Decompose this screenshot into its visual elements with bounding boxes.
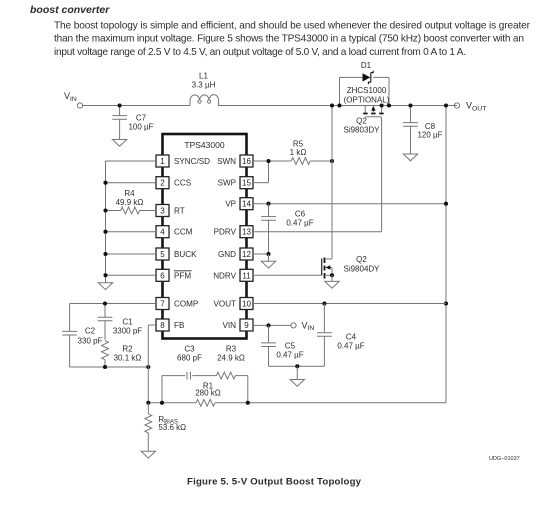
node: VOUT vertical on rail xyxy=(444,103,448,107)
wire: bottom feedback rail left xyxy=(148,402,196,404)
svg-text:COMP: COMP xyxy=(174,300,198,309)
node: ground stem xyxy=(295,364,299,368)
wire: SWN pin16 to R5 xyxy=(253,160,291,162)
node: C4 tap xyxy=(322,301,326,305)
svg-text:120 µF: 120 µF xyxy=(417,131,442,140)
svg-text:C1: C1 xyxy=(122,318,133,327)
wire: pin5 to bus xyxy=(106,253,157,255)
wire: C3R3 branch right side xyxy=(247,376,249,403)
svg-text:C4: C4 xyxy=(346,333,357,342)
svg-text:3.3 µH: 3.3 µH xyxy=(192,80,216,89)
pin 15 SWP xyxy=(218,177,253,189)
svg-text:SYNC/SD: SYNC/SD xyxy=(174,157,210,166)
svg-text:C3: C3 xyxy=(184,345,195,354)
ground (NMOS source) xyxy=(325,281,339,288)
wire: R4 to pin3 xyxy=(140,210,156,212)
svg-text:ZHCS1000: ZHCS1000 xyxy=(347,86,387,95)
svg-text:49.9 kΩ: 49.9 kΩ xyxy=(116,198,144,207)
node: C7 junction on rail xyxy=(118,103,122,107)
node: FB vertical junction xyxy=(146,365,150,369)
svg-text:GND: GND xyxy=(218,250,236,259)
pin 6 PFM (overline) xyxy=(156,269,192,281)
svg-text:Figure 5. 5-V Output Boost Top: Figure 5. 5-V Output Boost Topology xyxy=(187,477,362,488)
svg-text:NDRV: NDRV xyxy=(213,271,236,280)
wire: SWP pin15 right xyxy=(253,182,269,184)
pin 7 COMP xyxy=(156,298,198,310)
svg-text:C7: C7 xyxy=(136,113,147,122)
inductor L1 xyxy=(190,71,219,105)
pin 11 NDRV xyxy=(213,269,253,281)
ground (left bus) xyxy=(98,283,112,290)
node: SWP/SWN join xyxy=(266,159,270,163)
pin 13 PDRV xyxy=(214,226,253,238)
node VOUT terminal xyxy=(454,101,486,113)
wire: GND pin12 to C6 bottom xyxy=(253,253,269,255)
svg-text:VOUT: VOUT xyxy=(214,300,237,309)
node: C5 tap xyxy=(266,323,270,327)
wire: L1 to SWN node and D1 box xyxy=(218,105,457,107)
node: bus pin5 xyxy=(103,252,107,256)
node: bus pin2 xyxy=(103,181,107,185)
wire: D1 anode xyxy=(340,76,363,78)
wire: C3 to R3 xyxy=(192,375,216,377)
pin 4 CCM xyxy=(156,226,193,238)
wire: C5/C4 ground rail xyxy=(269,365,325,367)
node: COMP junction C1 xyxy=(103,301,107,305)
wire: VP pin14 to VOUT vertical xyxy=(253,203,446,205)
node: R5 right on SW vertical xyxy=(330,159,334,163)
wire: pin2 to bus xyxy=(106,182,157,184)
wire: R5 to SW node xyxy=(310,160,332,162)
wire: SWP up to SWN xyxy=(268,161,270,183)
wire: left ground bus xyxy=(105,161,107,283)
svg-text:6: 6 xyxy=(160,271,165,280)
node: bus pin4 xyxy=(103,230,107,234)
resistor R4 xyxy=(116,189,144,214)
wire: C3R3 top left xyxy=(162,375,185,377)
svg-text:SWN: SWN xyxy=(217,157,236,166)
pin 9 VIN xyxy=(223,319,254,331)
svg-text:VOUT: VOUT xyxy=(466,101,486,113)
wire: PMOS gate vertical xyxy=(381,117,383,232)
svg-text:Si9804DY: Si9804DY xyxy=(343,265,380,274)
svg-text:input voltage range of 2.5 V t: input voltage range of 2.5 V to 4.5 V, a… xyxy=(54,47,466,58)
node VIN terminal (right) xyxy=(291,320,315,332)
wire: compensation bottom rail xyxy=(70,366,149,368)
svg-text:C2: C2 xyxy=(85,327,96,336)
svg-text:12: 12 xyxy=(242,250,251,259)
node: rail branch left xyxy=(160,401,164,405)
svg-text:VP: VP xyxy=(225,200,236,209)
svg-text:C6: C6 xyxy=(295,210,306,219)
svg-text:9: 9 xyxy=(244,321,249,330)
resistor R5 xyxy=(290,140,311,165)
svg-text:CCM: CCM xyxy=(174,228,193,237)
pin 8 FB xyxy=(156,319,184,331)
svg-text:D1: D1 xyxy=(361,61,372,70)
node: C8 on rail xyxy=(408,103,412,107)
wire: COMP pin7 to compensation network xyxy=(70,303,156,305)
node: C6 tap on VP wire xyxy=(266,202,270,206)
svg-text:SWP: SWP xyxy=(218,179,236,188)
transistor Q2 Si9803DY (PMOS) xyxy=(343,103,383,134)
svg-text:24.9 kΩ: 24.9 kΩ xyxy=(217,354,245,363)
svg-text:30.1 kΩ: 30.1 kΩ xyxy=(114,354,142,363)
resistor RBIAS xyxy=(145,403,186,452)
wire: pin6 to bus xyxy=(106,274,157,276)
ground (C8) xyxy=(403,154,417,161)
svg-text:than the maximum input voltage: than the maximum input voltage. Figure 5… xyxy=(54,34,524,45)
svg-text:53.6 kΩ: 53.6 kΩ xyxy=(158,423,186,432)
capacitor C6 xyxy=(261,204,314,254)
IC U1 TPS43000 body xyxy=(163,134,247,339)
svg-text:FB: FB xyxy=(174,321,184,330)
wire: VOUT feedback vertical xyxy=(445,106,447,403)
svg-text:PDRV: PDRV xyxy=(214,228,237,237)
node: C1R2 bottom xyxy=(103,365,107,369)
capacitor C3 xyxy=(177,345,202,380)
node: VP tap xyxy=(444,202,448,206)
pin 3 RT xyxy=(156,205,185,217)
node: VOUT pin tap xyxy=(444,301,448,305)
svg-text:UDG−01037: UDG−01037 xyxy=(489,456,520,462)
node: bus pin6 xyxy=(103,273,107,277)
svg-text:2: 2 xyxy=(160,179,165,188)
svg-text:16: 16 xyxy=(242,157,251,166)
svg-text:5: 5 xyxy=(160,250,165,259)
pin 12 GND xyxy=(218,248,253,260)
svg-text:PFM: PFM xyxy=(174,271,191,280)
wire: SW node vertical (rail to NMOS drain) xyxy=(331,106,333,260)
ground (C7) xyxy=(112,140,126,147)
svg-text:15: 15 xyxy=(242,179,251,188)
node: D1 right on rail xyxy=(387,103,391,107)
svg-text:R3: R3 xyxy=(226,345,237,354)
pin 10 VOUT xyxy=(214,298,253,310)
node: C6 bottom / gnd xyxy=(266,252,270,256)
svg-text:10: 10 xyxy=(242,300,251,309)
svg-text:7: 7 xyxy=(160,300,165,309)
svg-text:C5: C5 xyxy=(285,342,296,351)
svg-text:Q2: Q2 xyxy=(356,255,367,264)
svg-text:4: 4 xyxy=(160,228,165,237)
svg-text:3300 pF: 3300 pF xyxy=(113,327,142,336)
capacitor C8 xyxy=(403,106,443,155)
capacitor C5 xyxy=(261,325,304,366)
diode D1 box right side xyxy=(388,77,390,105)
svg-text:VIN: VIN xyxy=(64,91,77,103)
resistor R2 xyxy=(102,341,142,367)
svg-text:(OPTIONAL): (OPTIONAL) xyxy=(344,95,390,104)
svg-text:TPS43000: TPS43000 xyxy=(184,140,224,150)
svg-text:0.47 µF: 0.47 µF xyxy=(286,219,313,228)
wire: pin4 to bus xyxy=(106,231,157,233)
resistor R3 xyxy=(216,345,245,380)
svg-text:RT: RT xyxy=(174,207,185,216)
pin 1 SYNC/SD xyxy=(156,155,210,167)
wire: C3R3 branch left side xyxy=(161,376,163,403)
capacitor C1 xyxy=(98,304,143,341)
wire: bottom feedback rail right xyxy=(215,402,446,404)
pin 2 CCS xyxy=(156,177,192,189)
svg-text:The boost topology is simple a: The boost topology is simple and efficie… xyxy=(54,21,531,32)
wire: D1 cathode xyxy=(373,76,389,78)
wire: VOUT pin10 right xyxy=(253,303,446,305)
svg-text:100 µF: 100 µF xyxy=(128,122,153,131)
node: rail branch right xyxy=(246,401,250,405)
svg-text:1: 1 xyxy=(160,157,165,166)
svg-text:3: 3 xyxy=(160,207,165,216)
svg-text:11: 11 xyxy=(242,271,251,280)
wire: NDRV pin11 to NMOS gate xyxy=(253,274,322,276)
diode D1 (Schottky) xyxy=(344,61,390,105)
ground (RBIAS) xyxy=(141,451,155,458)
ground (C4/C5) xyxy=(290,366,304,386)
transistor Q2 Si9804DY (NMOS) xyxy=(322,255,380,281)
wire: pin1 to bus xyxy=(106,160,157,162)
capacitor C2 branch xyxy=(62,304,102,368)
wire: VIN rail to L1 xyxy=(83,105,191,107)
node: D1 left on rail xyxy=(337,103,341,107)
svg-text:680 pF: 680 pF xyxy=(177,354,202,363)
pin 14 VP xyxy=(225,198,253,210)
svg-text:8: 8 xyxy=(160,321,165,330)
svg-text:VIN: VIN xyxy=(223,321,237,330)
pin 5 BUCK xyxy=(156,248,197,260)
svg-text:Q2: Q2 xyxy=(356,117,367,126)
svg-text:L1: L1 xyxy=(199,71,208,80)
pin 16 SWN xyxy=(217,155,253,167)
capacitor C4 xyxy=(317,304,365,367)
svg-text:CCS: CCS xyxy=(174,179,192,188)
wire: FB pin8 left xyxy=(148,324,156,326)
wire: PDRV pin13 right xyxy=(253,231,382,233)
svg-text:330 pF: 330 pF xyxy=(78,336,103,345)
svg-text:C8: C8 xyxy=(425,122,436,131)
diode D1 box left side xyxy=(339,77,341,105)
svg-text:280 kΩ: 280 kΩ xyxy=(195,389,221,398)
svg-text:14: 14 xyxy=(242,200,251,209)
svg-text:1 kΩ: 1 kΩ xyxy=(290,148,307,157)
svg-text:BUCK: BUCK xyxy=(174,250,197,259)
node: bus pin3 xyxy=(103,208,107,212)
capacitor C7 xyxy=(112,106,153,140)
node: rail RBIAS xyxy=(146,401,150,405)
svg-text:0.47 µF: 0.47 µF xyxy=(276,351,303,360)
svg-text:Si9803DY: Si9803DY xyxy=(343,126,380,135)
svg-text:13: 13 xyxy=(242,228,251,237)
svg-text:0.47 µF: 0.47 µF xyxy=(337,341,364,350)
svg-text:R2: R2 xyxy=(122,345,133,354)
ground (C6 / GND pin) xyxy=(261,254,275,268)
svg-text:boost converter: boost converter xyxy=(30,4,110,16)
svg-text:VIN: VIN xyxy=(302,320,315,332)
wire: R3 to branch right side xyxy=(235,375,247,377)
svg-text:R4: R4 xyxy=(124,189,135,198)
wire: FB vertical xyxy=(147,325,149,403)
wire: VIN pin9 to terminal xyxy=(253,324,291,326)
wire: bus to R4 xyxy=(106,210,121,212)
node VIN input terminal xyxy=(64,91,83,108)
node: SW on rail xyxy=(330,103,334,107)
resistor R1 xyxy=(195,381,221,406)
